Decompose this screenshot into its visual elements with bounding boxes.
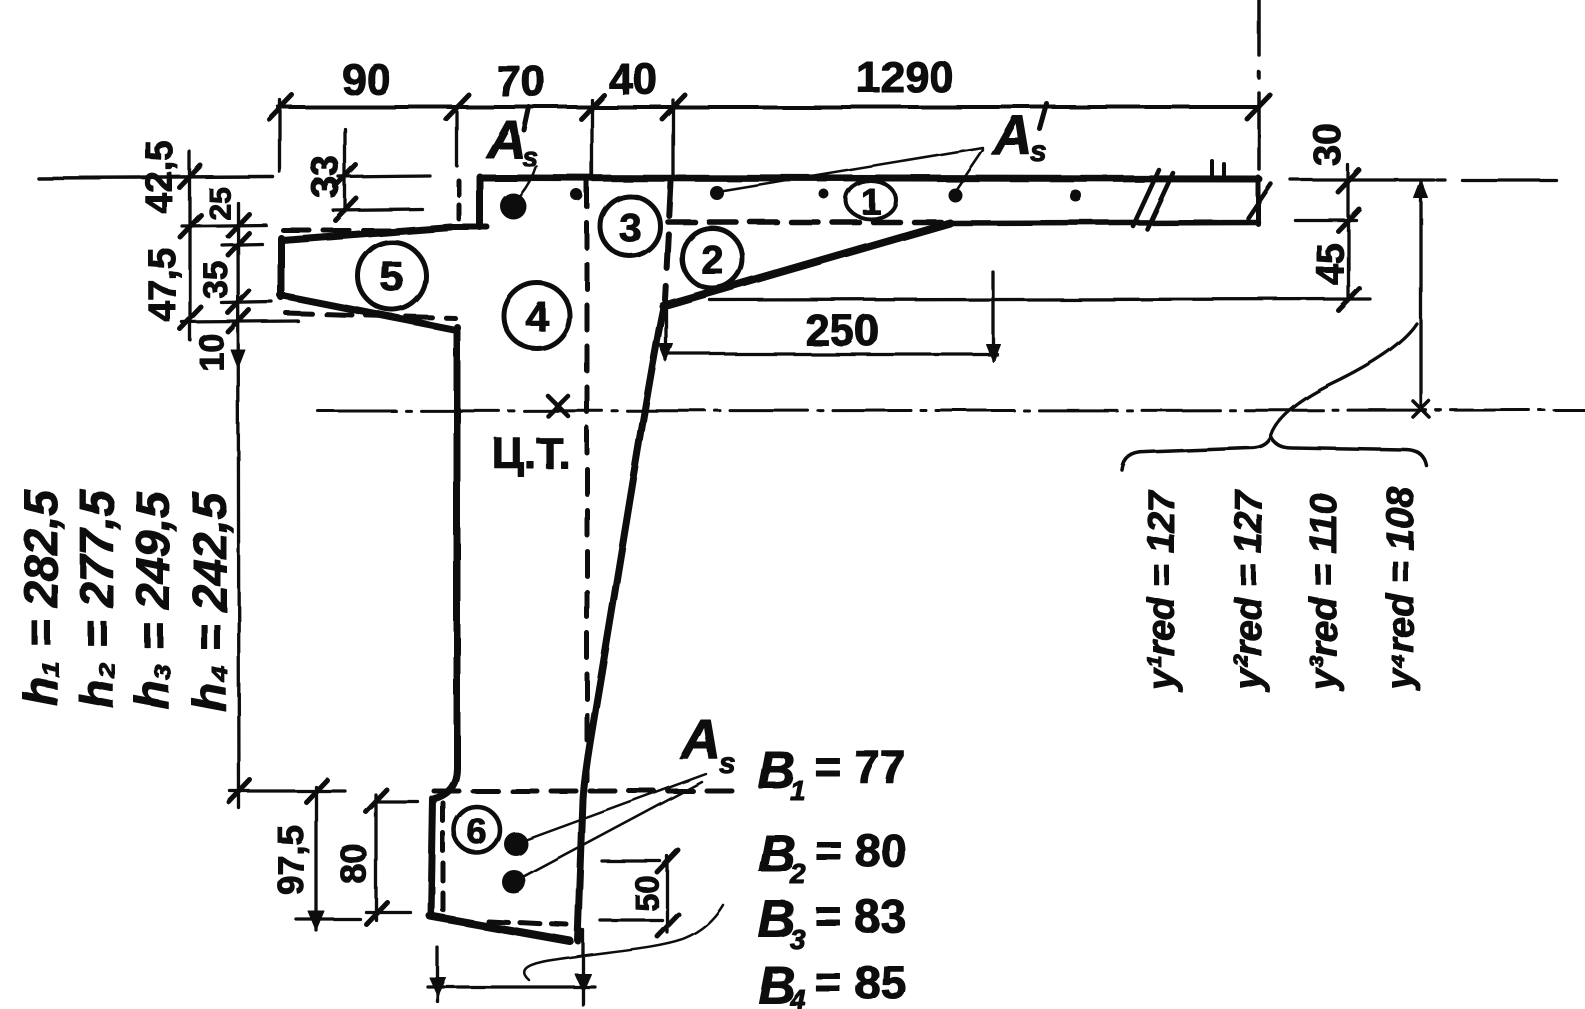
dashed overhang top [283, 228, 405, 233]
svg-text:80: 80 [333, 844, 374, 884]
ext 50 bottom [600, 918, 662, 921]
flange underside solid right part [948, 222, 1258, 223]
svg-text:= 83: = 83 [815, 890, 906, 942]
wavy leader bottom [524, 905, 723, 980]
ext vertical x280 [278, 100, 281, 172]
ext vertical left [436, 948, 439, 1002]
svg-text:30: 30 [1307, 124, 1349, 166]
dim line 30-45 x1348 [1346, 165, 1349, 300]
svg-text:A: A [485, 110, 526, 170]
tick at x1258 [1247, 95, 1270, 119]
ext vertical right [581, 930, 584, 1005]
svg-text:33: 33 [305, 156, 347, 198]
circle 6 [454, 807, 500, 853]
leader As to dot1 [526, 774, 706, 840]
ext y244 [222, 244, 262, 245]
ext 97,5 bottom [296, 917, 360, 920]
arrow top y_red [1414, 180, 1428, 198]
svg-text:h₄ = 242,5: h₄ = 242,5 [183, 492, 236, 712]
overhang top edge [282, 227, 451, 240]
tick 50 top [657, 850, 678, 872]
dashed block left vertical [441, 803, 446, 910]
web left edge [431, 327, 457, 916]
bottom dot 1 [504, 832, 528, 856]
tick 80 top [366, 790, 387, 812]
dot 5 [948, 188, 962, 202]
brace leader curve [1271, 324, 1417, 436]
svg-text:42,5: 42,5 [139, 140, 181, 214]
dim line 33 [343, 129, 346, 211]
arrow d2 down [231, 350, 245, 368]
dot 4 [819, 189, 829, 199]
brace over y_red [1122, 437, 1427, 470]
svg-text:1: 1 [790, 775, 806, 806]
tick d1 y318 [180, 307, 201, 329]
ext y791 left [230, 789, 345, 792]
svg-text:= 77: = 77 [815, 741, 906, 793]
flange tip tick [1248, 184, 1271, 218]
flange tip right edge [1256, 177, 1261, 224]
svg-text:6: 6 [467, 811, 487, 852]
ext vertical x592 [590, 100, 593, 180]
tick d2 y302 [228, 291, 249, 313]
dashed step vertical [457, 181, 462, 222]
tick 80 bottom [366, 902, 387, 924]
svg-text:Ц.Т.: Ц.Т. [492, 429, 571, 478]
ext 33 top [339, 176, 430, 177]
svg-text:h₁ = 282,5: h₁ = 282,5 [14, 489, 67, 706]
tick at x280 [269, 95, 292, 119]
arrow bottom right [575, 974, 591, 992]
ext y321 [182, 321, 298, 322]
dim 50 line [665, 856, 668, 932]
svg-text:25: 25 [204, 187, 237, 220]
leader right A's to near dot [956, 150, 983, 190]
top dimension line [278, 105, 1259, 109]
tick d2 y244 [228, 233, 249, 255]
right vertical dash-dot axis top [1257, 0, 1261, 169]
haunch bottom slope [663, 223, 950, 306]
tick 30 top [1338, 170, 1359, 192]
circle 1 [846, 181, 896, 219]
tick 45 bottom [1338, 288, 1359, 310]
dashed block top [434, 789, 732, 794]
ext 80 bottom [366, 910, 410, 913]
svg-text:250: 250 [805, 306, 878, 355]
svg-text:70: 70 [497, 57, 546, 106]
svg-text:y³red = 110: y³red = 110 [1303, 493, 1345, 692]
circle 4 [504, 283, 570, 349]
dot 2 [571, 189, 583, 201]
y_red dimension line [1419, 180, 1422, 409]
svg-text:4: 4 [525, 293, 549, 340]
tick d2 y225 [228, 214, 249, 236]
arrow 250 right [986, 344, 1000, 362]
right horizontal dash-dot at flange level [1437, 178, 1556, 181]
svg-text:3: 3 [619, 206, 641, 250]
dim line 1 x190 [188, 152, 191, 340]
dim 97,5 line [314, 787, 317, 930]
svg-text:s: s [1031, 136, 1048, 169]
svg-text:2: 2 [789, 858, 806, 889]
tick d2 y321 [228, 310, 249, 332]
ext line y180 right [1291, 178, 1434, 181]
circle 2 [682, 228, 742, 288]
dim line 2 x238 [238, 203, 239, 808]
circle 3 [600, 196, 660, 256]
arrow bottom left [430, 978, 446, 996]
web right edge [578, 305, 664, 941]
centroid star [548, 396, 568, 416]
overhang bottom slope [280, 295, 456, 330]
dashed overhang bottom [286, 313, 455, 318]
leader from left A's to dot [516, 166, 536, 200]
arrow 250 left [659, 344, 673, 362]
right ext 250 [991, 272, 994, 360]
step vertical at left of flange [477, 177, 484, 227]
ext 50 top [602, 859, 660, 862]
leader As to dot2 [524, 782, 702, 877]
tick at x673 [662, 95, 685, 119]
circle 5 [358, 242, 426, 310]
centroid horizontal dash-dot axis [318, 410, 1585, 411]
dim 80 line [374, 795, 377, 920]
tick d1 y177 [180, 166, 201, 188]
overhang left edge [278, 238, 285, 297]
svg-text:= 85: = 85 [815, 956, 906, 1008]
ext y303 [222, 302, 272, 303]
left ext 250 [664, 310, 667, 360]
svg-text:A: A [991, 104, 1033, 167]
step horizontal [443, 224, 487, 230]
svg-text:97,5: 97,5 [270, 825, 311, 895]
tick 30 bottom [1338, 209, 1359, 231]
bottom dot 2 [502, 870, 526, 894]
tick 97,5 top [306, 780, 327, 802]
dashed web centre vertical [585, 182, 590, 788]
dashed web right vertical [665, 182, 671, 300]
dim line 250 [666, 352, 997, 355]
svg-text:1290: 1290 [856, 53, 954, 102]
ext 80 top [376, 800, 418, 803]
svg-text:= 80: = 80 [815, 824, 906, 876]
svg-text:y⁴red = 108: y⁴red = 108 [1380, 486, 1422, 692]
block bottom edge [430, 916, 570, 941]
svg-text:35: 35 [197, 261, 235, 299]
ext line y220 right [1295, 218, 1356, 221]
svg-text:h₃ = 249,5: h₃ = 249,5 [126, 491, 179, 710]
bottom dim line [428, 985, 595, 988]
svg-text:2: 2 [701, 238, 723, 282]
flange top edge [480, 178, 1259, 179]
svg-text:50: 50 [629, 875, 665, 911]
svg-text:y²red = 127: y²red = 127 [1228, 489, 1270, 692]
tick at x592 [581, 95, 604, 119]
flange break double ticks [1133, 170, 1173, 229]
star bottom y_red [1413, 401, 1429, 417]
svg-text:h₂ = 277,5: h₂ = 277,5 [70, 489, 123, 708]
svg-text:40: 40 [609, 55, 658, 104]
svg-text:3: 3 [790, 924, 806, 955]
tick 50 bottom [657, 914, 678, 936]
svg-text:A: A [679, 708, 721, 771]
svg-text:47,5: 47,5 [142, 248, 184, 322]
dashed block bottom [488, 921, 567, 925]
dot 6 [1070, 190, 1082, 202]
ext line y299 [710, 299, 1370, 300]
big A's dot [500, 193, 526, 219]
tick d2 bottom y791 [229, 780, 250, 802]
tick d1 y226 [180, 215, 201, 237]
dashed flange underside [668, 219, 945, 225]
ext line flange top level left [38, 177, 273, 178]
svg-text:s: s [719, 747, 736, 780]
small ticks above flange edge [1212, 161, 1224, 176]
svg-text:5: 5 [380, 253, 403, 300]
tick at x457 [446, 95, 469, 119]
tick 33 bottom [335, 198, 356, 220]
arrow 97,5 bottom [308, 911, 324, 930]
ext vertical x457 [455, 112, 458, 166]
svg-text:10: 10 [193, 333, 231, 371]
tick 33 top [335, 165, 356, 187]
leader right A's to far dot [718, 148, 983, 192]
dot 3 [710, 186, 724, 200]
ext vertical x673 [671, 100, 674, 180]
ext 33 bottom [333, 209, 422, 210]
svg-text:90: 90 [342, 55, 391, 104]
svg-text:45: 45 [1310, 243, 1352, 285]
svg-text:1: 1 [861, 181, 881, 222]
svg-text:4: 4 [789, 984, 806, 1009]
ext y226 [182, 225, 266, 226]
svg-text:y¹red = 127: y¹red = 127 [1141, 489, 1183, 692]
